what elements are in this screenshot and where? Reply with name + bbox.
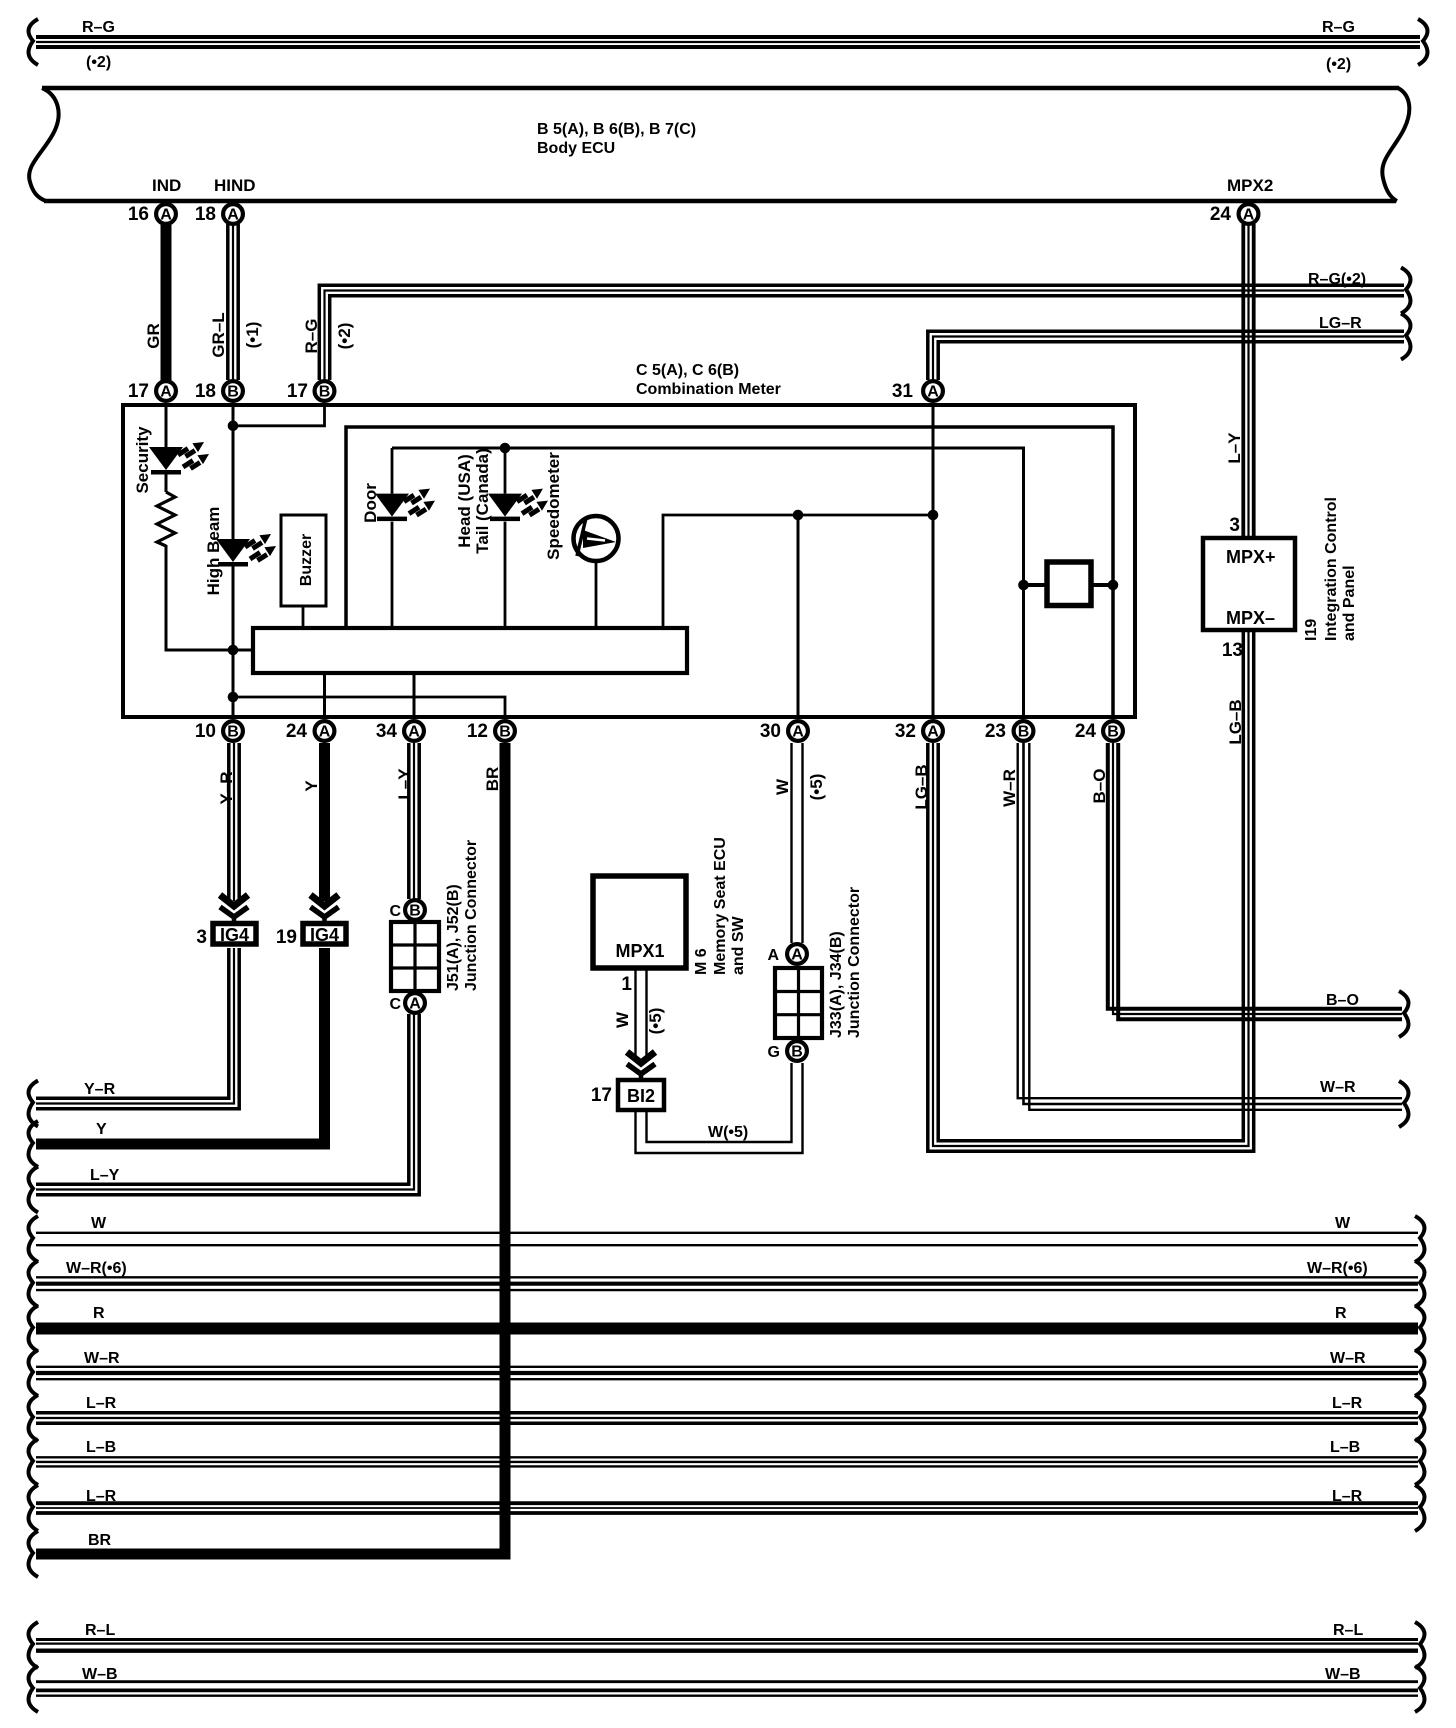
svg-text:Y–R: Y–R: [217, 771, 236, 804]
svg-text:1: 1: [621, 974, 632, 995]
svg-text:17: 17: [287, 381, 308, 402]
svg-text:A: A: [227, 207, 239, 224]
svg-text:Memory Seat ECU: Memory Seat ECU: [712, 837, 729, 975]
svg-text:MPX+: MPX+: [1226, 547, 1276, 567]
svg-text:Speedometer: Speedometer: [544, 452, 563, 560]
svg-text:W–R: W–R: [1330, 1350, 1366, 1367]
svg-text:W–B: W–B: [82, 1666, 118, 1683]
svg-text:B 5(A), B 6(B), B 7(C): B 5(A), B 6(B), B 7(C): [537, 121, 696, 138]
svg-text:W: W: [613, 1011, 632, 1028]
pin 17(B) meter: [287, 381, 335, 402]
svg-text:19: 19: [276, 927, 297, 948]
svg-text:17: 17: [128, 381, 149, 402]
svg-text:3: 3: [1229, 515, 1240, 536]
svg-text:17: 17: [591, 1085, 612, 1106]
svg-text:High Beam: High Beam: [204, 507, 223, 596]
svg-text:A: A: [767, 947, 779, 964]
wire R-L bus: [29, 1622, 1425, 1668]
svg-text:LG–B: LG–B: [912, 764, 931, 809]
svg-text:30: 30: [760, 721, 781, 742]
terminal 19 IG4: [276, 924, 346, 949]
svg-text:GR: GR: [144, 323, 163, 349]
wire door branch: [391, 448, 394, 628]
wire BR (12B down to bus): [29, 743, 505, 1577]
svg-text:(•5): (•5): [807, 774, 826, 801]
buzzer: [281, 515, 326, 628]
svg-text:(•5): (•5): [646, 1008, 665, 1035]
svg-text:IG4: IG4: [310, 925, 339, 945]
svg-text:LG–B: LG–B: [1226, 699, 1245, 744]
pin 12(B) meter: [467, 721, 515, 742]
pin 18(B) meter: [195, 381, 243, 402]
svg-text:A: A: [319, 724, 331, 741]
svg-text:I19: I19: [1303, 619, 1320, 641]
wire R bus: [29, 1305, 1425, 1352]
wire L-B bus: [29, 1439, 1425, 1485]
svg-text:R–L: R–L: [85, 1622, 115, 1639]
junction dot security/high-beam: [228, 645, 239, 656]
svg-text:3: 3: [196, 927, 207, 948]
pin 18(A) HIND on Body ECU: [195, 176, 256, 225]
svg-text:W: W: [773, 778, 792, 795]
svg-text:L–R: L–R: [86, 1395, 117, 1412]
svg-text:13: 13: [1222, 640, 1243, 661]
wire W-R(.6) bus: [29, 1260, 1425, 1307]
svg-text:C: C: [389, 996, 401, 1013]
svg-text:W(•5): W(•5): [708, 1124, 748, 1141]
wire LG-R (meter 31A up and right to cut): [928, 314, 1411, 381]
terminal 17 BI2: [591, 1080, 664, 1110]
svg-text:Head (USA): Head (USA): [455, 454, 474, 548]
svg-text:34: 34: [376, 721, 398, 742]
connector B5/B6/B7 Body ECU band: [29, 88, 1409, 201]
svg-text:W: W: [1335, 1215, 1351, 1232]
svg-text:R–G: R–G: [1322, 19, 1355, 36]
svg-text:W–B: W–B: [1325, 1666, 1361, 1683]
pin 32(A) meter: [895, 721, 943, 742]
svg-text:18: 18: [195, 381, 216, 402]
wire bar to 34A pin: [413, 673, 416, 719]
svg-text:(•2): (•2): [1326, 56, 1351, 73]
svg-text:A: A: [160, 207, 172, 224]
wire LG-B (32A down, right, up to I19 pin 13): [912, 630, 1254, 1151]
svg-text:R: R: [1335, 1305, 1347, 1322]
wire R-G top bus: [29, 19, 1428, 73]
LED Door: [361, 483, 435, 523]
wire 30A drop: [797, 515, 800, 719]
svg-text:B: B: [409, 903, 421, 920]
svg-text:B: B: [499, 724, 511, 741]
wire W(.5) BI2 to J33 pin B: [636, 1063, 803, 1153]
wire Y-R (10B down to IG4 and bus): [29, 743, 248, 1127]
wire bar to 24A pin: [323, 673, 326, 719]
svg-text:B: B: [227, 724, 239, 741]
svg-text:12: 12: [467, 721, 488, 742]
internal bus bar: [253, 628, 687, 673]
svg-text:and SW: and SW: [730, 915, 747, 975]
junction dot 12B link: [228, 692, 239, 703]
svg-text:IND: IND: [152, 176, 181, 195]
wire MPX2 / L-Y (ECU 24A down to I19 pin 3): [1225, 224, 1254, 538]
svg-text:16: 16: [128, 204, 149, 225]
svg-text:MPX1: MPX1: [615, 941, 664, 961]
wire W-B bus: [29, 1666, 1425, 1712]
svg-text:B: B: [227, 384, 239, 401]
svg-text:Integration Control: Integration Control: [1323, 497, 1340, 641]
resistor (security): [157, 492, 175, 546]
svg-text:BR: BR: [88, 1532, 112, 1549]
pin 17(A) meter: [128, 381, 176, 402]
svg-text:Y: Y: [96, 1121, 107, 1138]
junction dot 30A rail: [793, 510, 804, 521]
svg-text:BI2: BI2: [627, 1086, 655, 1106]
svg-text:M 6: M 6: [693, 948, 710, 975]
wire W(.5) MPX1 pin 1 to BI2: [613, 968, 665, 1079]
ECU M6 Memory Seat ECU and SW (MPX1): [593, 837, 747, 975]
ECU I19 Integration Control and Panel: [1203, 497, 1358, 661]
pin 30(A) meter: [760, 721, 808, 742]
svg-text:18: 18: [195, 204, 216, 225]
svg-text:G: G: [768, 1044, 780, 1061]
wire L-R bus: [29, 1395, 1425, 1441]
svg-text:31: 31: [892, 381, 914, 402]
svg-text:24: 24: [1075, 721, 1097, 742]
svg-text:Buzzer: Buzzer: [298, 534, 315, 586]
svg-text:24: 24: [1210, 204, 1232, 225]
svg-text:24: 24: [286, 721, 308, 742]
svg-text:L–R: L–R: [1332, 1488, 1363, 1505]
svg-text:W–R(•6): W–R(•6): [1307, 1260, 1368, 1277]
LED High Beam: [204, 507, 276, 596]
svg-text:L–B: L–B: [86, 1439, 116, 1456]
connector C5/C6 Combination Meter box: [123, 362, 1135, 717]
pin 23(B) meter: [985, 721, 1034, 742]
svg-text:L–Y: L–Y: [90, 1167, 120, 1184]
svg-text:Body ECU: Body ECU: [537, 140, 615, 157]
svg-text:L–B: L–B: [1330, 1439, 1360, 1456]
svg-text:A: A: [408, 724, 420, 741]
wire 12B link: [233, 697, 505, 719]
svg-text:B: B: [791, 1044, 803, 1061]
pin 24(B) meter: [1075, 721, 1123, 742]
wire W-R (23B down and right to cut): [1000, 743, 1408, 1127]
svg-text:Door: Door: [361, 483, 380, 523]
wire 18B high-beam branch (18B down to 10B): [232, 407, 235, 719]
svg-text:Y: Y: [302, 780, 321, 792]
svg-text:C: C: [389, 903, 401, 920]
svg-text:W–R: W–R: [1000, 769, 1019, 807]
svg-text:L–Y: L–Y: [395, 768, 414, 800]
svg-text:J51(A), J52(B): J51(A), J52(B): [445, 884, 462, 991]
svg-text:A: A: [927, 724, 939, 741]
svg-text:GR–L: GR–L: [209, 312, 228, 357]
svg-text:Combination Meter: Combination Meter: [636, 381, 781, 398]
svg-text:R–G(•2): R–G(•2): [1308, 271, 1366, 288]
svg-text:W–R: W–R: [84, 1350, 120, 1367]
svg-text:L–Y: L–Y: [1225, 432, 1244, 464]
pin 34(A) meter: [376, 721, 424, 742]
svg-text:C 5(A), C 6(B): C 5(A), C 6(B): [636, 362, 739, 379]
svg-text:BR: BR: [483, 767, 502, 792]
svg-text:B: B: [319, 384, 331, 401]
wire security branch (17A down to bus bar): [166, 407, 253, 650]
wire R-G (meter 17B up and right to cut): [302, 268, 1410, 381]
svg-text:R: R: [93, 1305, 105, 1322]
wire B-O (24B down and right to cut): [1090, 743, 1408, 1037]
svg-text:Junction Connector: Junction Connector: [463, 840, 480, 991]
pin 31(A) meter: [892, 381, 943, 402]
svg-text:W–R(•6): W–R(•6): [66, 1260, 127, 1277]
small internal box: [1018, 562, 1118, 606]
svg-text:J33(A), J34(B): J33(A), J34(B): [828, 931, 845, 1038]
junction dot: [228, 421, 239, 432]
svg-text:A: A: [791, 947, 803, 964]
svg-text:(•2): (•2): [335, 323, 354, 350]
wire door/head top rail (to 23B pin): [392, 448, 1024, 719]
wire 17B to 18B jog: [233, 407, 325, 426]
svg-text:L–R: L–R: [1332, 1395, 1363, 1412]
svg-text:R–G: R–G: [302, 319, 321, 354]
pin 24(A) MPX2 on Body ECU: [1210, 176, 1273, 225]
pin 10(B) meter: [195, 721, 243, 742]
pin 24(A) meter: [286, 721, 335, 742]
svg-text:(•1): (•1): [243, 322, 262, 349]
wire W-R bus: [29, 1350, 1425, 1396]
wire GR (ECU 16A to meter 17A): [144, 222, 166, 382]
svg-text:10: 10: [195, 721, 216, 742]
terminal 3 IG4: [196, 924, 256, 949]
svg-text:B: B: [1018, 724, 1030, 741]
svg-text:IG4: IG4: [220, 925, 249, 945]
pin 16(A) IND on Body ECU: [128, 176, 181, 225]
svg-text:A: A: [927, 384, 939, 401]
wire Y (24A down to IG4 and bus): [29, 743, 339, 1167]
svg-text:32: 32: [895, 721, 916, 742]
junction connector J33(A) J34(B): [767, 887, 863, 1061]
svg-text:23: 23: [985, 721, 1006, 742]
junction dot 31A rail: [928, 510, 939, 521]
svg-text:(•2): (•2): [86, 54, 111, 71]
wire head branch: [504, 448, 507, 628]
junction dot head: [500, 443, 511, 454]
svg-text:R–L: R–L: [1333, 1622, 1363, 1639]
svg-text:and Panel: and Panel: [1341, 565, 1358, 641]
LED Security: [133, 426, 209, 494]
speedometer: [544, 452, 619, 628]
wire W bus: [29, 1215, 1425, 1262]
wire L-Y (34A down to J51 and bus): [29, 743, 420, 1213]
svg-text:MPX–: MPX–: [1226, 608, 1275, 628]
svg-text:LG–R: LG–R: [1319, 315, 1362, 332]
svg-text:Y–R: Y–R: [84, 1081, 116, 1098]
svg-text:B: B: [1107, 724, 1119, 741]
svg-text:B–O: B–O: [1326, 992, 1359, 1009]
svg-text:W: W: [91, 1215, 107, 1232]
wire GR-L (ECU 18A to meter 18B): [209, 224, 262, 380]
svg-text:L–R: L–R: [86, 1488, 117, 1505]
wire L-R lower bus: [29, 1485, 1425, 1531]
svg-text:Security: Security: [133, 426, 152, 494]
svg-text:A: A: [160, 384, 172, 401]
wire inner rect (to 24B pin): [346, 427, 1113, 719]
svg-text:HIND: HIND: [214, 176, 256, 195]
svg-text:A: A: [409, 996, 421, 1013]
wire W (30A down to J33 pin A): [773, 743, 826, 943]
svg-text:Tail (Canada): Tail (Canada): [473, 448, 492, 553]
svg-text:A: A: [792, 724, 804, 741]
wire speedo rail to 31A/32A line: [663, 515, 933, 628]
svg-text:R–G: R–G: [82, 19, 115, 36]
junction connector J51(A) J52(B): [389, 840, 480, 1013]
svg-text:W–R: W–R: [1320, 1079, 1356, 1096]
svg-text:B–O: B–O: [1090, 769, 1109, 804]
svg-text:Junction Connector: Junction Connector: [846, 887, 863, 1038]
svg-text:A: A: [1243, 207, 1255, 224]
wire 31A to 32A through line: [932, 407, 935, 719]
LED Head (USA) Tail (Canada): [455, 448, 548, 553]
svg-text:MPX2: MPX2: [1227, 176, 1273, 195]
